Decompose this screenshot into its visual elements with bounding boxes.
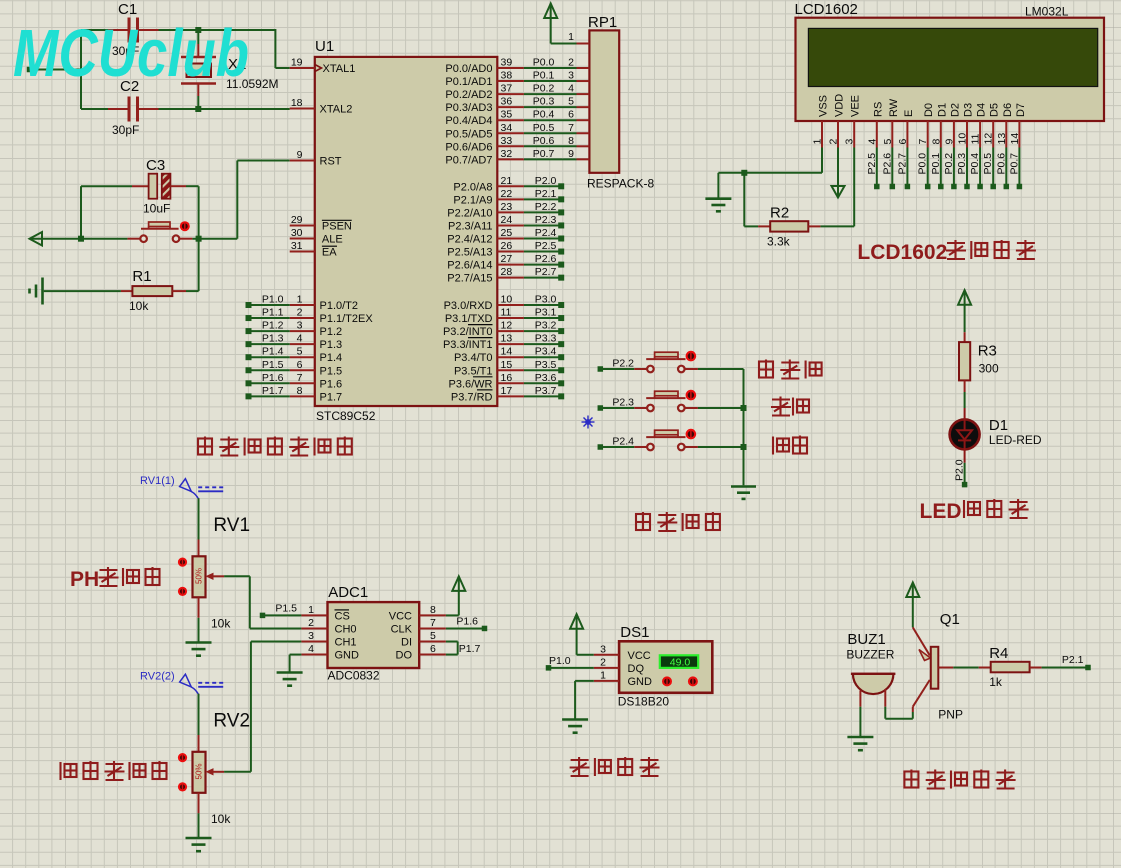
svg-text:P1.2: P1.2 bbox=[262, 320, 284, 332]
svg-text:P1.7: P1.7 bbox=[320, 391, 343, 403]
svg-text:30pF: 30pF bbox=[112, 123, 139, 137]
button reset bbox=[127, 221, 192, 242]
svg-text:7: 7 bbox=[917, 139, 929, 145]
svg-text:LCD1602: LCD1602 bbox=[857, 241, 947, 264]
svg-text:P3.5/T1: P3.5/T1 bbox=[454, 365, 493, 377]
svg-text:CS: CS bbox=[335, 610, 350, 622]
svg-text:P0.5/AD5: P0.5/AD5 bbox=[445, 128, 492, 140]
wire keys common vertical bbox=[741, 369, 747, 485]
svg-text:P0.5: P0.5 bbox=[533, 122, 555, 134]
wire buzzer collector bbox=[885, 707, 913, 719]
svg-text:D3: D3 bbox=[963, 103, 975, 117]
wire XTAL2 net bbox=[81, 30, 290, 112]
caption turbidity adjust bbox=[61, 761, 167, 781]
svg-text:D1: D1 bbox=[989, 417, 1008, 434]
button key 3 bbox=[634, 429, 698, 451]
svg-text:5: 5 bbox=[568, 96, 574, 108]
wire buzzer to ground bbox=[859, 707, 861, 737]
svg-text:RV1(1): RV1(1) bbox=[140, 475, 175, 487]
svg-text:15: 15 bbox=[501, 359, 513, 371]
wire net P1.5 bbox=[246, 359, 290, 374]
svg-text:4: 4 bbox=[568, 83, 574, 95]
svg-text:RESPACK-8: RESPACK-8 bbox=[587, 177, 654, 191]
wire net P2.1 bbox=[1042, 654, 1091, 670]
svg-text:2: 2 bbox=[568, 57, 574, 69]
svg-text:4: 4 bbox=[866, 139, 878, 145]
svg-text:RW: RW bbox=[888, 98, 900, 117]
svg-text:P2.2/A10: P2.2/A10 bbox=[447, 207, 492, 219]
button key 1 bbox=[634, 351, 698, 373]
svg-text:36: 36 bbox=[501, 96, 513, 108]
resistor pack RP1 RESPACK-8 bbox=[568, 14, 654, 191]
wire net P3.3 bbox=[524, 333, 564, 348]
svg-text:P2.1/A9: P2.1/A9 bbox=[453, 194, 492, 206]
svg-text:6: 6 bbox=[897, 139, 909, 145]
wire key to common bbox=[698, 407, 744, 409]
wire net P0.6 bbox=[524, 135, 577, 147]
wire net P2.0 LED bbox=[954, 459, 968, 487]
svg-text:P1.2: P1.2 bbox=[320, 326, 343, 338]
wire net P2.3 bbox=[524, 214, 564, 229]
svg-text:14: 14 bbox=[1009, 133, 1021, 145]
svg-text:P2.6: P2.6 bbox=[881, 153, 893, 175]
svg-text:LED-RED: LED-RED bbox=[989, 433, 1042, 447]
svg-text:RP1: RP1 bbox=[588, 14, 617, 31]
caption temperature module bbox=[570, 757, 660, 777]
svg-text:9: 9 bbox=[297, 149, 303, 161]
svg-text:12: 12 bbox=[983, 133, 995, 145]
capacitor C1 bbox=[108, 1, 159, 58]
svg-text:P2.2: P2.2 bbox=[612, 358, 634, 370]
svg-text:32: 32 bbox=[501, 148, 513, 160]
caption MCU minimal system bbox=[198, 437, 352, 457]
svg-text:D5: D5 bbox=[989, 103, 1001, 117]
caption keys circuit bbox=[636, 512, 720, 532]
svg-text:9: 9 bbox=[943, 139, 955, 145]
wire RV1 top bbox=[198, 498, 200, 539]
power symbol DS1 bbox=[570, 614, 594, 655]
svg-text:P2.7/A15: P2.7/A15 bbox=[447, 273, 492, 285]
wire reset row bbox=[31, 161, 290, 242]
svg-text:2: 2 bbox=[828, 139, 840, 145]
svg-text:6: 6 bbox=[297, 359, 303, 371]
svg-text:P2.0: P2.0 bbox=[535, 175, 557, 187]
wire net P2.7 LCD bbox=[896, 148, 910, 190]
svg-text:P2.4: P2.4 bbox=[612, 436, 634, 448]
wire R3 to D1 bbox=[964, 392, 966, 408]
wire net P2.5 LCD bbox=[866, 148, 880, 190]
svg-text:E: E bbox=[903, 110, 915, 117]
wire net P2.4 bbox=[524, 227, 564, 242]
wire net P1.3 bbox=[246, 333, 290, 348]
potentiometer RV1 10k bbox=[178, 515, 250, 631]
svg-text:P2.4/A12: P2.4/A12 bbox=[447, 234, 492, 246]
svg-text:P0.6: P0.6 bbox=[995, 153, 1007, 175]
wire R1 row bbox=[44, 290, 199, 292]
caption key minus bbox=[773, 436, 807, 455]
temperature sensor DS1 DS18B20 bbox=[594, 624, 713, 709]
svg-text:P2.5: P2.5 bbox=[866, 153, 878, 175]
svg-text:GND: GND bbox=[628, 676, 653, 688]
svg-text:P0.3/AD3: P0.3/AD3 bbox=[445, 102, 492, 114]
wire net P0.4 LCD bbox=[969, 148, 983, 190]
wire net P0.1 LCD bbox=[930, 148, 944, 190]
capacitor C2 bbox=[108, 78, 159, 137]
svg-text:P1.3: P1.3 bbox=[320, 339, 343, 351]
svg-text:50%: 50% bbox=[195, 763, 204, 779]
svg-text:P1.0: P1.0 bbox=[262, 294, 284, 306]
wire net P1.4 bbox=[246, 346, 290, 361]
svg-text:29: 29 bbox=[291, 214, 303, 226]
svg-text:2: 2 bbox=[297, 307, 303, 319]
svg-text:P2.5/A13: P2.5/A13 bbox=[447, 247, 492, 259]
wire net P0.3 LCD bbox=[956, 148, 970, 190]
wire net P3.4 bbox=[524, 346, 564, 361]
probe RV2 bbox=[140, 671, 223, 695]
svg-text:3.3k: 3.3k bbox=[767, 235, 791, 249]
power symbol RP1 bbox=[544, 4, 576, 44]
svg-text:PNP: PNP bbox=[938, 708, 963, 722]
wire RV2 top bbox=[198, 694, 200, 735]
svg-text:U1: U1 bbox=[315, 38, 334, 55]
svg-text:P0.1: P0.1 bbox=[533, 70, 555, 82]
svg-text:8: 8 bbox=[430, 604, 436, 616]
svg-text:P0.7: P0.7 bbox=[1008, 153, 1020, 175]
svg-text:VDD: VDD bbox=[834, 94, 846, 117]
svg-text:D1: D1 bbox=[936, 103, 948, 117]
svg-text:XTAL2: XTAL2 bbox=[320, 104, 353, 116]
svg-text:P0.2: P0.2 bbox=[533, 83, 555, 95]
svg-text:9: 9 bbox=[568, 148, 574, 160]
svg-text:XTAL1: XTAL1 bbox=[323, 63, 356, 75]
svg-text:19: 19 bbox=[291, 57, 303, 69]
wire VEE to R2 bbox=[820, 148, 854, 227]
svg-text:1: 1 bbox=[297, 294, 303, 306]
resistor R4 1k bbox=[979, 645, 1042, 689]
caption key set bbox=[759, 360, 822, 380]
svg-text:P1.5: P1.5 bbox=[320, 365, 343, 377]
ground keys bbox=[731, 487, 756, 499]
wire stub node bbox=[27, 67, 81, 73]
svg-text:P3.2: P3.2 bbox=[535, 320, 557, 332]
svg-text:P0.1/AD1: P0.1/AD1 bbox=[445, 76, 492, 88]
svg-text:DQ: DQ bbox=[628, 663, 645, 675]
svg-text:P3.4/T0: P3.4/T0 bbox=[454, 352, 493, 364]
svg-text:PH: PH bbox=[70, 568, 99, 591]
svg-text:P1.1/T2EX: P1.1/T2EX bbox=[320, 313, 374, 325]
wire net P0.7 LCD bbox=[1008, 148, 1022, 190]
svg-text:R1: R1 bbox=[132, 268, 151, 285]
svg-text:D2: D2 bbox=[949, 103, 961, 117]
svg-text:31: 31 bbox=[291, 240, 303, 252]
svg-text:3: 3 bbox=[568, 70, 574, 82]
svg-text:DS18B20: DS18B20 bbox=[618, 695, 670, 709]
svg-text:28: 28 bbox=[501, 266, 513, 278]
svg-text:P0.0: P0.0 bbox=[917, 153, 929, 175]
svg-text:VEE: VEE bbox=[850, 95, 862, 117]
capacitor C3 10uF bbox=[132, 157, 186, 216]
svg-text:STC89C52: STC89C52 bbox=[316, 409, 376, 423]
svg-text:VSS: VSS bbox=[818, 95, 830, 117]
wire net P1.0 bbox=[246, 294, 290, 309]
wire VSS to ground bbox=[718, 148, 822, 199]
svg-text:D7: D7 bbox=[1015, 103, 1027, 117]
svg-text:3: 3 bbox=[308, 630, 314, 642]
power symbol ADC VCC bbox=[446, 576, 465, 615]
probe RV1 bbox=[140, 475, 223, 499]
wire key to common bbox=[698, 446, 744, 448]
svg-text:1: 1 bbox=[812, 139, 824, 145]
svg-text:LED: LED bbox=[920, 500, 962, 523]
wire net P2.4 key bbox=[598, 436, 635, 450]
svg-text:DI: DI bbox=[401, 637, 412, 649]
ground RV1 bbox=[186, 643, 212, 656]
wire DS1 GND bbox=[575, 681, 594, 720]
svg-text:10k: 10k bbox=[211, 617, 231, 631]
svg-text:P1.7: P1.7 bbox=[459, 643, 481, 655]
svg-text:3: 3 bbox=[600, 643, 606, 655]
caption LED circuit bbox=[920, 499, 1029, 523]
svg-text:DO: DO bbox=[396, 650, 413, 662]
svg-text:P0.0: P0.0 bbox=[533, 57, 555, 69]
wire net P2.5 bbox=[524, 240, 564, 255]
wire net P3.7 bbox=[524, 385, 564, 400]
svg-text:P1.5: P1.5 bbox=[262, 359, 284, 371]
wire net P1.0 DS1 bbox=[546, 655, 594, 671]
wire net P1.7 bbox=[246, 385, 290, 400]
wire net P2.2 bbox=[524, 201, 564, 216]
svg-text:1k: 1k bbox=[989, 675, 1003, 689]
svg-text:P2.3: P2.3 bbox=[612, 397, 634, 409]
svg-text:50%: 50% bbox=[195, 568, 204, 584]
svg-text:10uF: 10uF bbox=[143, 202, 170, 216]
svg-text:CLK: CLK bbox=[391, 623, 413, 635]
svg-text:P2.5: P2.5 bbox=[535, 240, 557, 252]
svg-text:13: 13 bbox=[996, 133, 1008, 145]
wire net P0.1 bbox=[524, 70, 577, 82]
wire net P2.1 bbox=[524, 188, 564, 203]
svg-text:22: 22 bbox=[501, 188, 513, 200]
wire XTAL1 net bbox=[81, 27, 290, 68]
svg-text:P3.4: P3.4 bbox=[535, 346, 557, 358]
wire net P0.4 bbox=[524, 109, 577, 121]
svg-text:P3.5: P3.5 bbox=[535, 359, 557, 371]
wire R2 to VSS net bbox=[744, 173, 758, 227]
svg-text:P2.6/A14: P2.6/A14 bbox=[447, 260, 492, 272]
caption key plus bbox=[771, 397, 809, 417]
svg-text:P0.7: P0.7 bbox=[533, 148, 555, 160]
wire net P0.3 bbox=[524, 96, 577, 108]
potentiometer RV2 10k bbox=[178, 711, 250, 827]
svg-text:10k: 10k bbox=[211, 812, 231, 826]
svg-text:P2.6: P2.6 bbox=[535, 253, 557, 265]
svg-text:P3.2/INT0: P3.2/INT0 bbox=[443, 326, 493, 338]
svg-text:P0.3: P0.3 bbox=[956, 153, 968, 175]
wire net P1.7 ADC bbox=[446, 642, 481, 656]
adc ADC1 ADC0832 bbox=[301, 584, 446, 683]
svg-text:DS1: DS1 bbox=[620, 624, 649, 641]
svg-text:P1.6: P1.6 bbox=[262, 372, 284, 384]
svg-text:P1.3: P1.3 bbox=[262, 333, 284, 345]
svg-text:16: 16 bbox=[501, 372, 513, 384]
svg-text:P2.0/A8: P2.0/A8 bbox=[453, 181, 492, 193]
svg-text:P3.1/TXD: P3.1/TXD bbox=[445, 313, 493, 325]
svg-text:P1.0: P1.0 bbox=[549, 655, 571, 667]
caption buzzer circuit bbox=[904, 770, 1015, 790]
svg-text:23: 23 bbox=[501, 201, 513, 213]
resistor R1 10k bbox=[121, 268, 186, 313]
svg-text:D6: D6 bbox=[1002, 103, 1014, 117]
wire net P2.6 bbox=[524, 253, 564, 268]
svg-text:P2.3/A11: P2.3/A11 bbox=[448, 220, 492, 232]
svg-text:P2.1: P2.1 bbox=[535, 188, 557, 200]
power symbol VDD down bbox=[832, 148, 845, 198]
ground LCD bbox=[705, 199, 731, 212]
power symbol Q1 bbox=[906, 583, 919, 628]
wire key to common bbox=[698, 368, 744, 370]
svg-text:LCD1602: LCD1602 bbox=[795, 1, 858, 18]
wire net P1.6 ADC bbox=[446, 616, 487, 632]
wire RV2 bottom to ground bbox=[198, 813, 200, 838]
svg-text:P3.6/WR: P3.6/WR bbox=[448, 378, 492, 390]
svg-text:Q1: Q1 bbox=[940, 611, 960, 628]
svg-text:VCC: VCC bbox=[389, 610, 412, 622]
svg-text:GND: GND bbox=[335, 650, 360, 662]
wire net P0.5 LCD bbox=[982, 148, 996, 190]
svg-text:P3.0/RXD: P3.0/RXD bbox=[444, 300, 493, 312]
svg-text:P2.3: P2.3 bbox=[535, 214, 557, 226]
ground buzzer bbox=[847, 737, 873, 750]
svg-text:13: 13 bbox=[501, 333, 513, 345]
svg-text:2: 2 bbox=[600, 656, 606, 668]
svg-text:10k: 10k bbox=[129, 299, 149, 313]
svg-text:P1.6: P1.6 bbox=[456, 616, 478, 628]
wire net P2.6 LCD bbox=[881, 148, 895, 190]
svg-text:RS: RS bbox=[872, 102, 884, 117]
wire net P1.1 bbox=[246, 307, 290, 322]
wire Q1 base to R4 bbox=[953, 667, 978, 669]
svg-text:7: 7 bbox=[568, 122, 574, 134]
wire net P3.1 bbox=[524, 307, 564, 322]
resistor R3 300 bbox=[959, 332, 999, 392]
svg-text:RST: RST bbox=[320, 156, 342, 168]
ground DS1 bbox=[562, 720, 588, 733]
wire net P0.0 bbox=[524, 57, 577, 69]
svg-text:P0.4: P0.4 bbox=[969, 153, 981, 175]
resistor R2 3.3k bbox=[758, 205, 820, 249]
svg-text:11: 11 bbox=[501, 307, 512, 319]
svg-text:P0.6/AD6: P0.6/AD6 bbox=[445, 141, 492, 153]
svg-text:P3.1: P3.1 bbox=[535, 307, 557, 319]
svg-text:P2.1: P2.1 bbox=[1062, 654, 1084, 666]
svg-text:P0.5: P0.5 bbox=[982, 153, 994, 175]
wire net P1.2 bbox=[246, 320, 290, 335]
svg-text:P0.4/AD4: P0.4/AD4 bbox=[445, 115, 492, 127]
transistor Q1 PNP bbox=[913, 611, 963, 722]
svg-text:P0.3: P0.3 bbox=[533, 96, 555, 108]
wire net P0.5 bbox=[524, 122, 577, 134]
wire left vertical bbox=[80, 30, 82, 109]
caption PH adjust bbox=[70, 567, 160, 591]
watermark MCUclub bbox=[13, 16, 249, 91]
svg-text:PSEN: PSEN bbox=[322, 221, 352, 233]
caption LCD circuit bbox=[857, 240, 1036, 264]
svg-text:17: 17 bbox=[501, 385, 513, 397]
svg-text:P2.0: P2.0 bbox=[954, 459, 966, 481]
power symbol LED bbox=[958, 290, 971, 332]
wire net P1.5 ADC bbox=[260, 603, 302, 619]
svg-text:7: 7 bbox=[297, 372, 303, 384]
svg-text:MCUclub: MCUclub bbox=[13, 16, 249, 91]
svg-text:25: 25 bbox=[501, 227, 513, 239]
svg-text:8: 8 bbox=[568, 135, 574, 147]
svg-text:21: 21 bbox=[501, 175, 513, 187]
svg-text:24: 24 bbox=[501, 214, 513, 226]
svg-text:P1.6: P1.6 bbox=[320, 378, 343, 390]
svg-text:P3.7: P3.7 bbox=[535, 385, 557, 397]
svg-text:RV2: RV2 bbox=[213, 711, 250, 732]
svg-text:27: 27 bbox=[501, 253, 513, 265]
wire net P0.2 LCD bbox=[943, 148, 957, 190]
crystal X1 11.0592M bbox=[181, 44, 278, 96]
ground rotated bbox=[30, 278, 43, 305]
svg-text:D4: D4 bbox=[976, 103, 988, 117]
LED D1 LED-RED bbox=[950, 408, 1042, 463]
svg-text:CH1: CH1 bbox=[335, 637, 357, 649]
svg-text:P1.4: P1.4 bbox=[320, 352, 343, 364]
svg-text:300: 300 bbox=[979, 362, 999, 376]
svg-text:4: 4 bbox=[308, 643, 314, 655]
ground ADC bbox=[277, 673, 303, 686]
wire net P2.0 bbox=[524, 175, 564, 190]
svg-text:33: 33 bbox=[501, 135, 513, 147]
wire net P0.0 LCD bbox=[917, 148, 931, 190]
svg-text:P2.7: P2.7 bbox=[896, 153, 908, 175]
svg-text:ALE: ALE bbox=[322, 234, 343, 246]
wire net P0.6 LCD bbox=[995, 148, 1009, 190]
wire net P2.3 key bbox=[598, 397, 635, 411]
wire net P0.7 bbox=[524, 148, 577, 160]
svg-text:26: 26 bbox=[501, 240, 513, 252]
svg-text:3: 3 bbox=[844, 139, 856, 145]
svg-text:P0.4: P0.4 bbox=[533, 109, 555, 121]
svg-text:R4: R4 bbox=[989, 645, 1008, 662]
svg-text:P1.1: P1.1 bbox=[262, 307, 284, 319]
svg-text:49.0: 49.0 bbox=[670, 657, 691, 669]
svg-text:1: 1 bbox=[308, 604, 314, 616]
wire net P1.6 bbox=[246, 372, 290, 387]
wire net P3.5 bbox=[524, 359, 564, 374]
svg-text:1: 1 bbox=[600, 669, 606, 681]
svg-text:7: 7 bbox=[430, 617, 436, 629]
wire net P2.2 key bbox=[598, 358, 635, 372]
svg-text:6: 6 bbox=[568, 109, 574, 121]
svg-text:P2.2: P2.2 bbox=[535, 201, 557, 213]
svg-text:34: 34 bbox=[501, 122, 513, 134]
svg-text:39: 39 bbox=[501, 57, 513, 69]
svg-text:3: 3 bbox=[297, 320, 303, 332]
svg-text:P0.1: P0.1 bbox=[930, 153, 942, 175]
svg-text:5: 5 bbox=[882, 139, 894, 145]
svg-text:D0: D0 bbox=[923, 103, 935, 117]
svg-text:8: 8 bbox=[297, 385, 303, 397]
svg-text:38: 38 bbox=[501, 70, 513, 82]
svg-text:RV1: RV1 bbox=[213, 515, 250, 536]
svg-text:P0.0/AD0: P0.0/AD0 bbox=[445, 63, 492, 75]
LCD display LCD1602 LM032L bbox=[795, 1, 1105, 148]
svg-text:5: 5 bbox=[297, 346, 303, 358]
wire C3 net bbox=[81, 186, 202, 291]
